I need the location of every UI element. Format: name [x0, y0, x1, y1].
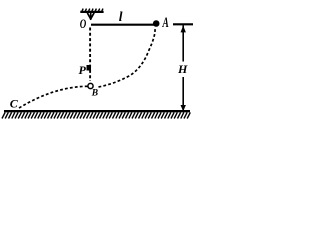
- svg-text:l: l: [119, 9, 123, 24]
- svg-text:A: A: [162, 14, 169, 31]
- svg-text:H: H: [177, 62, 188, 76]
- svg-text:P: P: [79, 63, 87, 77]
- svg-text:O: O: [80, 18, 87, 32]
- svg-text:B: B: [91, 89, 98, 99]
- svg-text:C: C: [10, 96, 19, 110]
